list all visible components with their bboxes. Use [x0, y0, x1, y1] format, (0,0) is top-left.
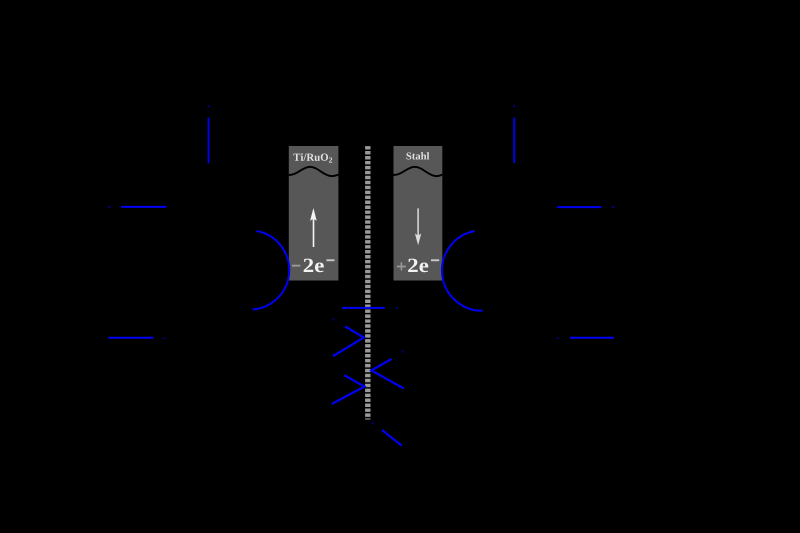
electrode cathode Stahl	[394, 146, 443, 281]
label Stahl	[406, 152, 429, 159]
white arrow up in anode	[310, 208, 317, 247]
white arrow down in cathode	[415, 208, 421, 245]
wire H2O inlet arrow (right upper)	[557, 206, 614, 208]
wire H2 outlet arrow (right top)	[513, 105, 515, 163]
label Ti/RuO2	[293, 153, 332, 162]
wire NaOH outlet arrow (right lower)	[557, 337, 614, 339]
OH- diagonal arrow below membrane	[372, 422, 402, 445]
label -2e- on anode	[292, 259, 335, 273]
membrane (dashed separator)	[365, 146, 370, 419]
circulation arc cathode compartment	[442, 231, 483, 311]
blocked ion bounce arrow lower-left at membrane	[332, 375, 365, 404]
blocked ion bounce arrow right at membrane	[371, 351, 403, 389]
blocked ion bounce arrow upper-left at membrane	[333, 319, 364, 357]
wire Cl2 outlet arrow (left top)	[208, 105, 210, 163]
circulation arc anode compartment	[253, 231, 290, 310]
wire NaCl inlet arrow (left upper)	[108, 206, 166, 208]
liquid level wave on cathode	[394, 167, 443, 176]
electrode anode Ti/RuO2	[289, 146, 339, 281]
Na+ arrow through membrane	[342, 307, 398, 309]
wire brine outlet arrow (left lower)	[108, 337, 165, 339]
liquid level wave on anode	[289, 167, 339, 176]
label +2e- on cathode	[397, 259, 439, 273]
